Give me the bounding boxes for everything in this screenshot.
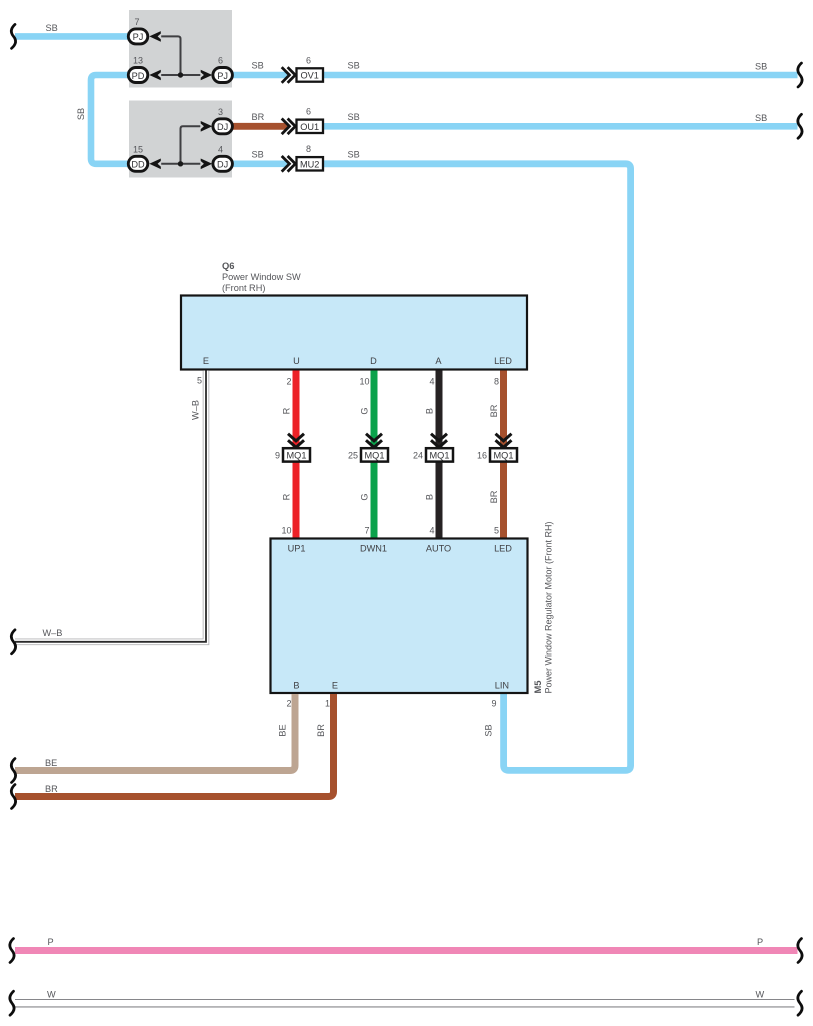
svg-text:DWN1: DWN1 [360,544,387,554]
svg-text:SB: SB [348,149,360,159]
svg-text:BR: BR [45,784,58,794]
svg-text:9: 9 [491,699,496,709]
svg-text:BR: BR [489,404,499,417]
wire label R upper rotated [282,407,292,414]
pin 2 of M5 B [286,699,291,709]
wire label BR rotated [316,724,326,737]
squiggle break right row B [798,63,802,87]
connector OV1 [297,68,324,81]
wire label P left [48,937,54,947]
arrow into DD-15 (left pointing) [149,159,161,170]
svg-text:6: 6 [306,107,311,117]
wire label BR horizontal [45,784,58,794]
pin 5 of Q6 E [197,375,202,385]
svg-text:E: E [332,681,338,691]
svg-text:OU1: OU1 [300,122,319,132]
svg-text:7: 7 [134,17,139,27]
chevron into MU2 [282,156,296,172]
svg-text:SB: SB [46,23,58,33]
svg-text:SB: SB [348,61,360,71]
svg-text:D: D [370,356,377,366]
svg-text:5: 5 [494,526,499,536]
wire SB right of OU1 to squiggle [323,123,798,130]
block Q6 Power Window SW box [181,296,527,370]
wire BR from M5 pin E down and left [15,694,334,797]
junction dot lower box [178,161,183,166]
svg-text:BR: BR [316,724,326,737]
svg-text:MQ1: MQ1 [365,451,385,461]
svg-text:15: 15 [133,144,143,154]
svg-text:10: 10 [281,526,291,536]
pin 2 of Q6 U [286,377,291,387]
svg-text:SB: SB [76,108,86,120]
wire BE from M5 pin B down and left [15,694,295,771]
junction wiring inside upper gray box [161,36,200,75]
wire label BR lower rotated [489,490,499,503]
chevron arrows above MQ1 column U [288,434,304,448]
svg-text:P: P [757,937,763,947]
connector oval PJ pin 7 [128,17,148,44]
svg-text:MQ1: MQ1 [430,451,450,461]
pin 7 of M5 DWN1 [364,526,369,536]
wire label W-B horizontal [43,628,63,638]
connector oval PJ pin 6 [213,56,233,83]
wire G from Q6 pin D to M5 DWN1 [371,371,378,538]
svg-text:7: 7 [364,526,369,536]
wire W-B from Q6 pin E down and left to squiggle [15,371,206,642]
pin 10 of Q6 D [359,377,369,387]
svg-text:AUTO: AUTO [426,544,451,554]
Q6 title [222,260,301,293]
wire label G upper rotated [360,407,370,414]
svg-text:BR: BR [489,490,499,503]
connector oval DJ pin 3 [213,107,233,134]
svg-text:B: B [425,408,435,414]
arrow into DJ-3 (right pointing) [201,121,213,132]
wire label G lower rotated [360,493,370,500]
wire label SB left of OV1 [252,61,264,71]
svg-text:SB: SB [252,61,264,71]
svg-text:B: B [425,494,435,500]
svg-text:3: 3 [218,107,223,117]
wire label BE horizontal [45,758,57,768]
svg-text:PD: PD [132,71,145,81]
wire R from Q6 pin U to M5 UP1 [293,371,300,538]
pin 6 of OU1 [306,107,311,117]
svg-text:R: R [282,407,292,414]
squiggle break P left [10,939,14,963]
svg-text:6: 6 [306,55,311,65]
squiggle break W-B left [11,630,15,654]
arrow into DJ-4 (right pointing) [201,159,213,170]
wire label B upper rotated [425,408,435,414]
wire W white bottom [15,1000,795,1007]
svg-text:4: 4 [429,377,434,387]
wire label W-B rotated [191,400,201,420]
svg-text:UP1: UP1 [288,544,306,554]
squiggle break BR left [11,785,15,809]
wire B from Q6 pin A to M5 AUTO [436,371,443,538]
svg-text:Power Window SW: Power Window SW [222,272,301,282]
svg-text:DD: DD [131,160,145,170]
squiggle break P right [798,939,802,963]
svg-text:SB: SB [252,149,264,159]
wire label SB far right row B [755,62,767,72]
pin 5 of M5 LED [494,526,499,536]
svg-text:BE: BE [278,724,288,736]
wire label W right [756,990,765,1000]
svg-text:BR: BR [252,112,265,122]
pin 6 of OV1 [306,55,311,65]
wire P pink bottom [15,947,798,954]
svg-text:M5: M5 [532,680,543,693]
svg-text:4: 4 [218,144,223,154]
svg-text:2: 2 [286,699,291,709]
svg-text:BE: BE [45,758,57,768]
svg-text:MQ1: MQ1 [494,451,514,461]
wire label W left [47,990,56,1000]
wire label SB top-left [46,23,58,33]
wire label SB far right row C [755,113,767,123]
svg-text:13: 13 [133,56,143,66]
wire BR from DJ-3 to chevron [232,123,286,130]
svg-text:10: 10 [359,377,369,387]
connector MU2 [297,157,324,170]
svg-text:G: G [360,407,370,414]
pin 4 of M5 AUTO [429,526,434,536]
chevron arrows above MQ1 column A [431,434,447,448]
svg-text:DJ: DJ [217,122,228,132]
connector MQ1 pin 24 [413,448,453,461]
wire label SB right of MU2 [348,149,360,159]
svg-text:SB: SB [348,112,360,122]
wire label SB rotated below LIN [484,724,494,736]
svg-text:B: B [293,681,299,691]
svg-text:W–B: W–B [43,628,63,638]
svg-text:W: W [756,990,765,1000]
wire BR from Q6 pin LED to M5 LED [500,371,507,538]
wire SB from PD-13 left and down to DD-15 [91,75,129,164]
wire label SB left of MU2 [252,149,264,159]
wire label SB right of OU1 [348,112,360,122]
pin 8 of MU2 [306,144,311,154]
arrow into PD-13 (left pointing) [149,70,161,81]
svg-text:16: 16 [477,451,487,461]
wire label BR left of OU1 [252,112,265,122]
svg-text:(Front RH): (Front RH) [222,283,265,293]
block M5 Power Window Regulator Motor box [271,539,528,694]
connector oval DJ pin 4 [213,144,233,171]
svg-text:P: P [48,937,54,947]
chevron arrows above MQ1 column D [366,434,382,448]
arrow into PJ-7 (left pointing) [149,31,161,42]
wire SB from DJ-4 to chevron [232,161,286,168]
svg-text:OV1: OV1 [301,71,319,81]
svg-text:SB: SB [755,113,767,123]
svg-text:LED: LED [494,544,512,554]
junction wiring inside lower gray box [161,126,200,164]
svg-text:PJ: PJ [133,32,144,42]
svg-text:R: R [282,493,292,500]
junction dot upper box [178,72,183,77]
squiggle break top-left SB [11,24,15,48]
squiggle break W right [798,991,802,1015]
svg-text:W: W [47,990,56,1000]
svg-text:DJ: DJ [217,160,228,170]
squiggle break BE left [11,759,15,783]
svg-text:9: 9 [275,451,280,461]
wire label BE rotated [278,724,288,736]
chevron into OU1 [282,119,296,135]
wire label BR upper rotated [489,404,499,417]
wire SB top-left horizontal [15,33,129,40]
svg-text:LED: LED [494,356,512,366]
connector MQ1 pin 9 [275,448,310,461]
chevron arrows above MQ1 column LED [496,434,512,448]
label M5 rotated [532,680,543,693]
wire SB long loop: MU2 right, down right side, left along bottom, up to M5 LIN [323,164,631,771]
connector block box (lower gray) [129,101,232,178]
svg-text:24: 24 [413,451,423,461]
connector block box (upper gray) [129,10,232,88]
svg-text:PJ: PJ [217,71,228,81]
chevron into OV1 [282,67,296,83]
connector oval PD pin 13 [128,56,148,83]
svg-text:SB: SB [755,62,767,72]
svg-text:A: A [435,356,442,366]
svg-text:25: 25 [348,451,358,461]
wire label SB rotated on left vertical [76,108,86,120]
svg-text:5: 5 [197,375,202,385]
pin 1 of M5 E [325,699,330,709]
svg-text:U: U [293,356,300,366]
connector MQ1 pin 25 [348,448,388,461]
arrow into PJ-6 (right pointing) [201,70,213,81]
connector oval DD pin 15 [128,144,148,171]
svg-text:G: G [360,493,370,500]
svg-text:Power Window Regulator Motor (: Power Window Regulator Motor (Front RH) [544,521,554,693]
connector OU1 [297,120,324,133]
svg-text:SB: SB [484,724,494,736]
wire label B lower rotated [425,494,435,500]
svg-text:LIN: LIN [495,681,509,691]
svg-text:MQ1: MQ1 [287,451,307,461]
svg-text:MU2: MU2 [300,160,319,170]
svg-text:Q6: Q6 [222,260,235,271]
wire label R lower rotated [282,493,292,500]
pin 9 of M5 LIN [491,699,496,709]
wire SB row B right of PJ-6 to squiggle [232,72,798,79]
svg-text:2: 2 [286,377,291,387]
pin 4 of Q6 A [429,377,434,387]
svg-text:8: 8 [306,144,311,154]
wire label P right [757,937,763,947]
pin 8 of Q6 LED [494,377,499,387]
wire label SB right of OV1 [348,61,360,71]
squiggle break W left [10,991,14,1015]
svg-text:1: 1 [325,699,330,709]
label Power Window Regulator Motor (Front RH) rotated [544,521,554,693]
svg-text:W–B: W–B [191,400,201,420]
pin 10 of M5 UP1 [281,526,291,536]
svg-text:E: E [203,356,209,366]
squiggle break right row C [798,114,802,138]
svg-text:8: 8 [494,377,499,387]
svg-text:4: 4 [429,526,434,536]
svg-text:6: 6 [218,56,223,66]
connector MQ1 pin 16 [477,448,517,461]
